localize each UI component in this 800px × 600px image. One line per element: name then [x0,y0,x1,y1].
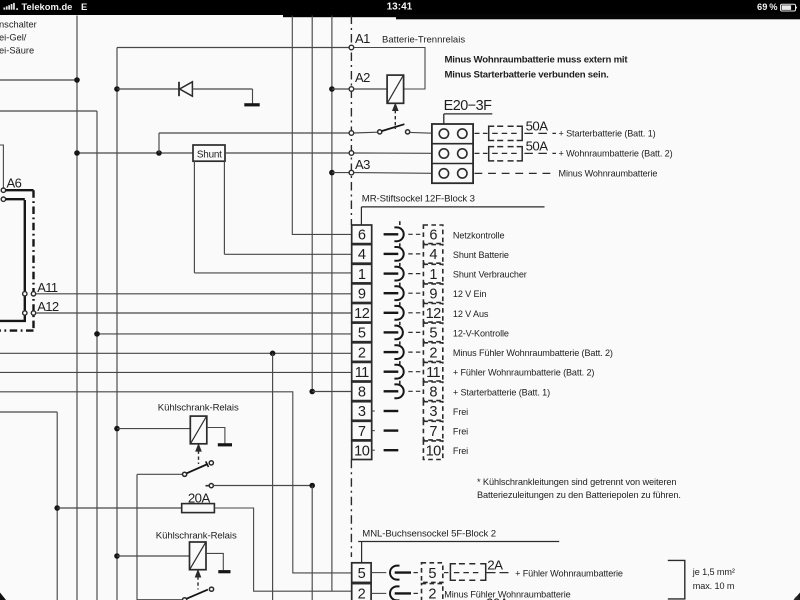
switch S1 lever [382,124,405,131]
wire switch to E20 block row1 [410,131,432,134]
E20-3F divider 1 [432,143,473,145]
block2 pin 2 dashed box [422,584,443,600]
block3 pin 10 dashed box [423,441,442,460]
junction x117 y429 [114,426,120,432]
relay K3 diagonal [190,542,206,569]
block3 pin 12 socket arc [394,306,403,320]
wire A1 loop to relay coil right [354,48,425,90]
battery icon [781,4,796,11]
block2 pin 5 solid box [352,563,371,583]
E20-3F divider 2 [432,163,473,165]
svg-text:2A: 2A [487,558,503,573]
wire vertical lane x137 [136,474,138,600]
relay K3 actuator dashed link with arrow [197,576,199,589]
block2 pin 2 socket arc row2 [390,586,400,600]
block3 pin 4 contact pin stub [384,253,399,255]
terminal A6 lower circle [1,197,5,201]
black mark bottom right page edge [794,593,800,600]
svg-text:3: 3 [429,404,437,420]
svg-text:1: 1 [358,267,366,283]
svg-text:ei-Säure: ei-Säure [0,46,34,56]
svg-text:12: 12 [426,306,442,322]
E20-3F contact row2 right [458,149,467,158]
block3 pin 7 contact pin stub [384,429,399,431]
block3 pin 7 solid box [352,421,372,440]
block3 pin 4 dashed link [408,253,421,255]
dashed wire row1 to fuse F1 [475,132,488,134]
diode D1 [179,82,192,96]
junction x312 y391 [309,389,315,395]
switch S2 lever [187,464,208,473]
svg-text:12 V Ein: 12 V Ein [453,289,486,299]
terminal A1 [349,45,354,50]
connector boundary dash [399,381,401,384]
svg-text:3: 3 [358,404,366,420]
device box right edge x57 [56,412,58,600]
wire A3 to E20 block row3 [354,172,432,175]
wire to A3 terminal [332,172,350,174]
block3 pin 5 socket arc [394,326,402,340]
block3 pin 3 contact pin stub [384,410,399,412]
wire shunt net left segment [77,152,193,154]
E20-3F contact row1 left [439,129,448,138]
block3 pin 12 solid box [352,304,372,323]
block3 pin 7 dashed box [423,421,442,440]
svg-text:69 %: 69 % [757,2,778,12]
block3 pin 8 socket arc [394,384,403,398]
block3 pin 10 contact pin stub [384,449,399,451]
block3 pin 1 dashed box [423,264,442,283]
wire terminal y133 to switch [354,131,378,134]
svg-text:Shunt Verbraucher: Shunt Verbraucher [453,270,527,280]
svg-text:50A: 50A [526,139,549,154]
wire A1 feed y47 [117,47,349,49]
fuse F2 50A dashed box [489,147,523,161]
svg-text:Frei: Frei [453,407,468,417]
svg-text:12: 12 [354,306,370,322]
svg-text:Frei: Frei [453,446,468,456]
wire down to ground [252,89,254,104]
svg-text:A11: A11 [37,280,58,295]
switch S2 upper contact [209,461,213,465]
svg-text:2: 2 [358,587,366,600]
svg-text:5: 5 [358,566,366,582]
wire fuse 20A to 5F box2 [214,508,351,591]
wire lane x331 full height [331,16,333,592]
block3 pin 2 dashed box [423,343,442,362]
switch S2 lower contact [209,484,213,488]
block3 pin 2 dashed link [408,351,421,353]
wire pin1 Shunt Verbraucher y273 [194,272,351,274]
block3 pin 12 contact pin stub [384,312,399,314]
connector boundary dash [399,243,401,246]
svg-text:4: 4 [358,247,366,263]
switch S3 common contact [183,598,187,600]
svg-text:Kühlschrank-Relais: Kühlschrank-Relais [156,530,237,541]
svg-text:20A: 20A [486,596,509,600]
relay K2 actuator dashed link with arrow [198,451,200,465]
E20-3F contact row2 left [439,149,448,158]
block2 pin 2 solid box [352,584,371,600]
svg-text:Netzkontrolle: Netzkontrolle [453,230,505,240]
svg-text:Batteriezuleitungen zu den Bat: Batteriezuleitungen zu den Batteriepolen… [477,490,681,500]
fuse F1 50A dashed box [489,126,523,140]
wire A11 to pin9 y294 [36,293,352,295]
wire pin2 y353 from left edge [0,352,352,354]
svg-text:12-V-Kontrolle: 12-V-Kontrolle [453,328,509,338]
dashed wire row2 to fuse F2 [475,152,488,154]
block3 pin 9 dashed box [423,284,442,303]
svg-text:MR-Stiftsockel 12F-Block 3: MR-Stiftsockel 12F-Block 3 [362,193,475,204]
wire to relay K3 coil [117,555,190,557]
terminal A11 circle left [23,292,27,296]
terminal A6 upper circle [1,188,5,192]
wire shunt net right segment [225,152,349,154]
block3 pin 5 dashed box [423,323,442,342]
wire pin5 y334 [97,333,352,335]
wire switch S2 to lane x312 [214,485,313,487]
wire lane x272 down [272,353,274,600]
svg-text:+ Fühler Wohnraumbatterie (Bat: + Fühler Wohnraumbatterie (Batt. 2) [453,368,595,378]
svg-text:A6: A6 [7,175,22,190]
battery boundary dash-dot bottom [0,329,34,331]
connector boundary dash [399,361,401,364]
wire A12 to pin12 y313 [36,312,352,314]
block2 pin 5 wire to socket [371,572,386,574]
connector boundary dash [399,263,401,266]
svg-text:Telekom.de: Telekom.de [22,1,73,12]
wire vertical branch x159 [158,133,160,153]
block3 pin 9 socket arc [394,286,403,300]
block3 pin 3 dashed box [423,402,442,421]
relay K3 coil box [190,542,207,570]
svg-text:MNL-Buchsensockel 5F-Block 2: MNL-Buchsensockel 5F-Block 2 [362,528,496,539]
svg-text:8: 8 [429,385,437,401]
junction x77 y153 [74,150,80,156]
terminal A2 [349,87,354,92]
wire lane x312 upper [311,16,313,392]
wire vertical bus x77 [76,16,78,600]
block3 pin 3 thin stub [372,410,375,412]
block3 pin 5 dashed link [408,331,421,333]
block3 pin 2 socket arc [394,345,403,359]
block3 pin 6 socket arc [394,227,403,241]
svg-text:6: 6 [429,228,437,244]
dashed wire fuse 2A to label [487,572,513,574]
wire switch feed y133 [159,132,349,134]
wire A2 to relay coil left [354,88,387,90]
boundary dash-dot lower [350,460,352,557]
svg-text:5: 5 [429,326,437,342]
relay K2 coil box [190,416,207,444]
status bar background [0,0,800,15]
svg-text:9: 9 [429,286,437,302]
block3 pin 6 dashed link [408,233,421,235]
connector boundary dash [399,302,401,305]
switch S1 left contact [378,130,382,134]
connector boundary dash [399,341,401,344]
svg-text:A1: A1 [355,31,370,46]
wire horizontal y111 from left edge [0,110,97,112]
svg-text:11: 11 [355,365,369,381]
switch S2 common contact [183,472,187,476]
svg-text:Minus Wohnraumbatterie: Minus Wohnraumbatterie [559,169,658,179]
svg-text:10: 10 [354,443,370,459]
wire to switch S2 common [137,473,182,475]
svg-text:50A: 50A [526,118,549,133]
block3 pin 1 dashed link [408,273,421,275]
block3 pin 10 solid box [352,441,372,460]
svg-text:Minus Wohnraumbatterie muss ex: Minus Wohnraumbatterie muss extern mit [445,55,629,66]
wire from diode to ground tap [192,88,252,90]
terminal y153 [349,151,354,156]
wire pin4 Shunt Batterie y254 [224,253,351,255]
block3 pin 5 contact pin stub [384,331,399,333]
block3 pin 11 dashed link [408,371,421,373]
terminal A3 [349,170,354,175]
block2 pin 2 contact pin [395,592,411,594]
junction x331 y172 [329,170,335,176]
switch S2 lower contact stub [206,485,209,487]
E20-3F contact row3 left [439,169,448,178]
block3 pin 11 dashed box [423,362,442,381]
block3 pin 1 solid box [352,264,372,283]
block3 pin 11 socket arc [394,365,403,379]
block3 pin 8 contact pin stub [384,390,399,392]
svg-text:A3: A3 [355,157,370,172]
block3 pin 1 socket arc [394,267,403,281]
black arrow mark bottom left [0,593,6,600]
switch S3 upper contact [209,587,213,591]
device box top edge y412 [0,411,57,413]
junction x272 y353 [270,351,276,357]
svg-text:+ Fühler Wohnraumbatterie: + Fühler Wohnraumbatterie [515,569,623,579]
block3 pin 9 contact pin stub [384,292,399,294]
dashed wire fuse F1 to label [524,132,556,134]
wire spec bracket [668,560,685,599]
wire vertical bus x117 [116,48,118,600]
svg-text:1: 1 [429,267,437,283]
svg-text:6: 6 [358,228,366,244]
block3 pin 5 solid box [352,323,372,342]
junction x57 y508 [54,505,60,511]
junction x312 y485 [309,483,315,489]
block3 pin 4 dashed box [423,245,442,264]
block2 pin 2 dashed link [414,592,421,594]
block3 pin 4 socket arc [394,247,403,261]
E20-3F contact row3 right [458,169,467,178]
block3 pin 11 solid box [352,362,372,381]
ground relay K3 [218,570,230,573]
svg-text:Minus Fühler Wohnraumbatterie: Minus Fühler Wohnraumbatterie (Batt. 2) [453,348,613,358]
block3 pin 7 thin stub [372,430,375,432]
svg-text:13:41: 13:41 [387,1,413,12]
svg-text:11: 11 [426,365,440,381]
svg-text:ei-Gel/: ei-Gel/ [0,33,27,43]
signal strength bars icon [4,8,6,10]
E20-3F underline [444,113,493,115]
block3 pin 2 solid box [352,343,372,362]
block3 pin 8 solid box [352,382,372,401]
svg-text:8: 8 [358,385,366,401]
block3 pin 6 solid box [352,225,372,244]
block3 pin 3 solid box [352,402,372,421]
block3 pin 8 dashed link [408,390,421,392]
wire relay K2 coil to ground [207,428,225,444]
dashed wire to fuse 2A [444,572,449,574]
svg-text:10: 10 [426,443,442,459]
ground relay K2 [218,443,232,446]
terminal y133 [349,131,354,136]
svg-text:2: 2 [428,587,436,600]
svg-text:nschalter: nschalter [0,20,37,30]
svg-text:9: 9 [358,286,366,302]
svg-text:Kühlschrank-Relais: Kühlschrank-Relais [158,403,239,414]
wire shunt net to E20 block [354,152,432,154]
terminal A11 circle right [31,292,35,296]
relay K1 diagonal [388,76,404,103]
block3 pin 6 dashed box [423,225,442,244]
svg-text:2: 2 [429,345,437,361]
wire horizontal y80 from left edge [0,79,77,81]
E20-3F contact row1 right [458,129,467,138]
svg-text:je 1,5 mm²: je 1,5 mm² [692,567,735,577]
junction x331 y89 [329,86,335,92]
block3 pin 8 dashed box [423,382,442,401]
block2 pin 5 socket arc row5 [390,566,400,580]
block3 pin 12 dashed box [423,304,442,323]
svg-text:max. 10 m: max. 10 m [693,581,735,591]
fuse 20A box [182,504,215,513]
wire vertical bus x97 [96,111,98,600]
wire to A2 terminal [332,88,350,90]
svg-text:Shunt: Shunt [197,150,222,161]
svg-text:Minus Starterbatterie verbunde: Minus Starterbatterie verbunden sein. [445,70,609,81]
block2 pin 5 dashed box [422,563,443,583]
block3 pin 11 contact pin stub [384,371,399,373]
svg-text:12 V Aus: 12 V Aus [453,309,489,319]
junction x159 y153 [156,150,162,156]
svg-text:E20−3F: E20−3F [444,98,493,114]
svg-text:5: 5 [428,566,436,582]
terminal A12 circle left [23,311,27,315]
wire pin8 right stub [312,391,352,393]
wire to relay K2 coil [117,428,190,430]
junction x77 y80 [74,77,80,83]
svg-text:Batterie-Trennrelais: Batterie-Trennrelais [382,35,465,46]
svg-text:+ Wohnraumbatterie (Batt. 2): + Wohnraumbatterie (Batt. 2) [559,149,673,159]
svg-text:Shunt Batterie: Shunt Batterie [453,250,509,260]
ground [244,103,259,106]
relay K1 actuator dashed link with arrow [394,110,396,129]
svg-text:7: 7 [429,424,437,440]
terminal block E20-3F outline [432,124,473,183]
svg-text:E: E [81,1,87,12]
header underline block2 [358,541,559,543]
wire to switch S3 common [137,599,182,600]
relay K2 diagonal [191,417,207,444]
wire to fuse 20A [57,507,182,509]
battery thick conductor down-left [0,200,25,321]
svg-text:A2: A2 [355,70,370,85]
battery boundary dash-dot vertical [32,190,34,331]
svg-text:Frei: Frei [453,427,468,437]
svg-text:A12: A12 [37,299,59,314]
terminal A12 circle right [31,311,35,315]
wire lane x312 lower [311,486,313,600]
block2 pin 2 wire to socket [371,592,386,594]
header tick to box 6 [360,207,362,225]
E20-3F pointer tick [443,114,445,124]
shunt lead left down [193,161,195,273]
relay K1 coil box [387,75,404,103]
connector boundary dash [399,283,401,286]
junction x117 y556 [114,553,120,559]
svg-text:+ Starterbatterie (Batt. 1): + Starterbatterie (Batt. 1) [453,387,550,397]
block3 pin 9 solid box [352,284,372,303]
connector boundary dash [399,322,401,325]
header tick to box 5 [361,542,363,563]
shunt lead right down [223,161,225,254]
shunt R-shunt box [193,145,225,161]
svg-text:+ Starterbatterie (Batt. 1): + Starterbatterie (Batt. 1) [559,128,656,138]
junction x117 y89 [114,86,120,92]
connector boundary dash top [399,221,401,225]
junction x97 y334 [94,331,100,337]
fuse 2A dashed box [450,564,485,580]
switch S3 lever [187,590,208,599]
wire pin11 y372 from left edge [0,371,352,373]
block3 pin 2 contact pin stub [384,351,399,353]
switch S1 right contact [406,130,410,134]
header underline block3 [361,206,544,208]
block3 pin 12 dashed link [408,312,421,314]
svg-text:5: 5 [358,326,366,342]
block3 pin 4 solid box [352,245,372,264]
svg-text:2: 2 [358,345,366,361]
battery thick wire A6 bottom [6,198,25,200]
block3 pin 1 contact pin stub [384,272,399,274]
block2 pin 5 contact pin [395,571,411,573]
boundary dash-dot upper [350,16,352,225]
switch S2 lever tick [206,461,209,467]
dashed wire row3 to label [475,172,557,174]
block2 pin 5 dashed link [414,572,421,574]
wire lane x292 to pin6 [292,16,351,235]
wire to diode [117,88,179,90]
svg-text:4: 4 [429,247,437,263]
wire into A6 terminal [0,145,3,188]
dashed wire fuse F2 to label [524,152,556,154]
svg-text:7: 7 [358,424,366,440]
block3 pin 9 dashed link [408,292,421,294]
block3 pin 6 contact pin stub [384,233,399,235]
svg-text:* Kühlschrankleitungen sind ge: * Kühlschrankleitungen sind getrennt von… [477,477,676,487]
battery thick wire A6 top [6,189,34,191]
wire relay K3 coil to ground [206,553,223,570]
block3 pin 10 thin stub [372,449,375,451]
wire y392 left edge to 5F box5 [0,392,352,573]
